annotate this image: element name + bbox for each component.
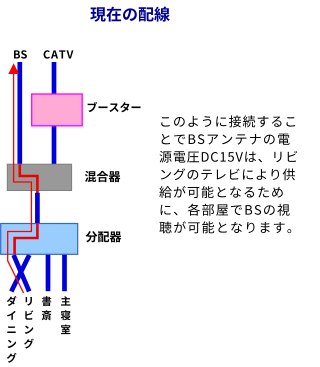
wire BS antenna cable xyxy=(17,62,22,165)
paragraph line 5 xyxy=(159,186,282,198)
label CATV xyxy=(44,50,74,58)
label 分配器 xyxy=(86,231,122,242)
paragraph line 3 xyxy=(159,151,297,163)
wire crossed cable to living room (X leg 1) xyxy=(14,255,30,291)
wire splitter output: study cable xyxy=(46,255,51,292)
power route thin red line xyxy=(8,70,32,293)
label リビング xyxy=(24,297,34,349)
label 書斎 xyxy=(42,296,52,320)
paragraph line 1 xyxy=(161,115,295,127)
paragraph line 2 xyxy=(162,134,290,145)
label 主寝室 xyxy=(61,296,71,334)
paragraph line 7 xyxy=(159,221,291,233)
wire crossed cable to dining (X leg 2) xyxy=(11,255,29,291)
label ブースター xyxy=(88,102,141,112)
wire CATV cable xyxy=(52,62,57,165)
label 混合器 xyxy=(85,171,121,182)
booster box xyxy=(32,94,82,126)
wire splitter output: master bedroom cable xyxy=(62,255,67,292)
arrow head (red, pointing up to BS) xyxy=(8,63,19,74)
power supply route (thick red) xyxy=(15,164,38,254)
splitter box xyxy=(1,224,78,255)
label ダイニング xyxy=(7,296,17,363)
title 現在の配線 xyxy=(90,7,170,22)
paragraph line 6 xyxy=(161,204,290,216)
label BS xyxy=(14,50,27,58)
wire mixer to splitter xyxy=(35,193,40,223)
paragraph line 4 xyxy=(161,168,295,180)
mixer box xyxy=(7,164,71,190)
